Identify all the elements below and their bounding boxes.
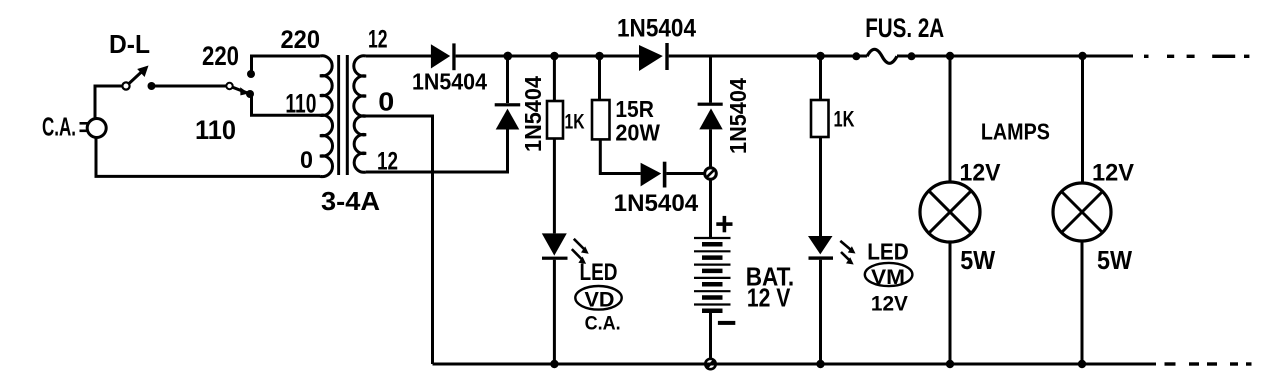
battery minus terminal node	[705, 359, 715, 369]
transformer T1 primary winding	[320, 56, 333, 177]
wire plug to switch D-L	[95, 86, 122, 119]
wire secondary 0 tap down to bottom rail	[366, 116, 433, 364]
wire secondary bottom 12 tap to D2 anode	[366, 130, 508, 173]
wire AC return to primary 0 tap	[96, 138, 320, 177]
svg-text:VD: VD	[585, 288, 615, 311]
svg-text:D-L: D-L	[109, 29, 150, 59]
bottom rail	[433, 363, 1157, 366]
svg-text:110: 110	[285, 88, 316, 118]
wire secondary top tap to diode D1	[366, 55, 431, 58]
svg-text:12V: 12V	[960, 159, 1001, 186]
svg-text:1N5404: 1N5404	[617, 14, 696, 42]
wire switch to voltage selector	[155, 85, 227, 88]
lamp L2 12V 5W	[1053, 56, 1111, 364]
svg-text:1K: 1K	[834, 107, 855, 132]
switch D-L	[122, 66, 155, 91]
wire 110 contact to primary mid tap	[252, 95, 321, 115]
svg-text:FUS. 2A: FUS. 2A	[865, 13, 944, 43]
battery BT1 12V	[694, 179, 731, 358]
svg-text:15R: 15R	[615, 96, 654, 122]
junction node VM column bottom	[816, 360, 824, 368]
wire top rail D3 to fuse	[669, 55, 867, 58]
junction node R1 column	[550, 52, 559, 61]
svg-text:1N5404: 1N5404	[412, 68, 487, 94]
svg-text:1N5404: 1N5404	[614, 190, 699, 217]
label VD oval	[575, 286, 621, 310]
svg-text:LAMPS: LAMPS	[981, 119, 1050, 145]
wire top rail fuse to right	[897, 55, 1133, 58]
svg-text:0: 0	[378, 87, 394, 117]
svg-text:1K: 1K	[565, 110, 585, 134]
bottom rail dashed continuation	[1165, 362, 1252, 365]
svg-text:0: 0	[300, 147, 313, 174]
svg-text:1N5404: 1N5404	[725, 78, 751, 154]
selector switch S2 110/220	[226, 70, 255, 98]
LED VM indicator	[808, 236, 856, 364]
svg-text:1N5404: 1N5404	[520, 76, 546, 152]
label minus sign	[718, 321, 735, 325]
junction node VD column bottom	[550, 360, 558, 368]
top rail dashed continuation	[1144, 55, 1249, 58]
svg-text:LED: LED	[580, 259, 618, 286]
diode D4 1N5404 charge path	[641, 162, 704, 188]
transformer T1 core	[337, 55, 340, 175]
resistor R3 1K	[811, 56, 829, 236]
label plus sign	[716, 216, 732, 232]
diode D3 1N5404 top middle	[639, 43, 669, 71]
svg-text:C.A.: C.A.	[585, 312, 621, 334]
svg-text:12 V: 12 V	[747, 283, 791, 313]
svg-text:110: 110	[195, 115, 236, 145]
svg-text:C.A.: C.A.	[42, 112, 76, 142]
junction node R3 column	[816, 52, 825, 61]
label VM oval	[865, 263, 913, 286]
svg-text:LED: LED	[867, 238, 909, 264]
fuse F1 2A	[852, 49, 915, 63]
junction node lamp L2 bottom	[1078, 360, 1086, 368]
wire 220 contact to primary top tap	[252, 56, 321, 74]
junction node lamp L2	[1078, 52, 1086, 60]
rectifier diode D2 vertical 1N5404	[495, 56, 521, 130]
resistor R2 15R 20W	[592, 56, 641, 174]
transformer T1 secondary winding	[354, 56, 366, 172]
battery plus terminal node	[705, 168, 717, 180]
resistor R1 1K	[547, 56, 563, 233]
AC plug P1	[80, 119, 107, 138]
junction node rectifier output	[503, 52, 512, 61]
svg-text:12: 12	[368, 26, 388, 54]
junction node lamp L1 bottom	[946, 360, 954, 368]
svg-text:3-4A: 3-4A	[321, 186, 380, 216]
svg-text:220: 220	[202, 41, 239, 71]
svg-text:220: 220	[281, 26, 321, 54]
svg-text:5W: 5W	[960, 247, 996, 275]
svg-text:12V: 12V	[1092, 159, 1134, 186]
svg-text:5W: 5W	[1097, 247, 1133, 275]
wire top rail D1 to D3	[456, 55, 639, 58]
LED VD indicator	[542, 233, 589, 364]
diode D5 vertical 1N5404 battery column	[698, 56, 723, 167]
junction node lamp L1	[946, 52, 954, 60]
svg-text:12V: 12V	[871, 292, 909, 316]
svg-text:VM: VM	[871, 266, 905, 289]
svg-text:20W: 20W	[615, 119, 660, 145]
diode D1 1N5404	[431, 43, 456, 70]
junction node R2 column	[595, 52, 604, 61]
lamp L1 12V 5W	[920, 56, 980, 364]
